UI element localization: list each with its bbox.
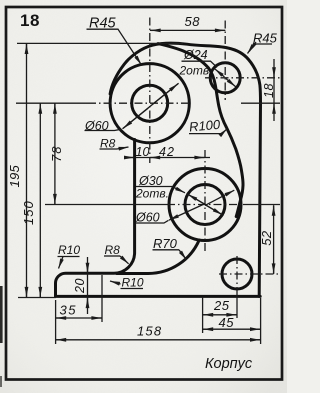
svg-text:18: 18 xyxy=(20,11,40,30)
svg-text:R8: R8 xyxy=(100,137,116,151)
svg-text:25: 25 xyxy=(213,298,230,313)
svg-text:18: 18 xyxy=(262,83,276,98)
svg-text:42: 42 xyxy=(159,145,175,159)
svg-text:150: 150 xyxy=(21,200,36,225)
svg-text:Ø24: Ø24 xyxy=(183,48,208,62)
svg-text:R45: R45 xyxy=(253,31,278,46)
svg-text:R100: R100 xyxy=(188,117,221,135)
svg-text:2отв.: 2отв. xyxy=(179,64,213,78)
svg-text:10: 10 xyxy=(136,145,150,159)
svg-text:Ø60: Ø60 xyxy=(135,211,160,225)
svg-text:20: 20 xyxy=(73,278,87,294)
svg-text:2отв.: 2отв. xyxy=(135,187,169,201)
svg-text:195: 195 xyxy=(7,164,22,187)
svg-text:52: 52 xyxy=(259,230,274,246)
svg-text:58: 58 xyxy=(185,14,201,29)
svg-text:35: 35 xyxy=(60,303,77,318)
svg-text:78: 78 xyxy=(49,146,64,162)
svg-text:45: 45 xyxy=(219,315,235,330)
svg-text:R10: R10 xyxy=(122,276,144,290)
svg-text:R70: R70 xyxy=(153,236,178,251)
svg-text:Ø60: Ø60 xyxy=(84,119,109,133)
svg-text:R45: R45 xyxy=(89,16,117,32)
svg-text:158: 158 xyxy=(137,324,162,339)
svg-text:R8: R8 xyxy=(105,243,121,257)
svg-text:R10: R10 xyxy=(58,243,80,257)
svg-text:Корпус: Корпус xyxy=(205,356,253,372)
